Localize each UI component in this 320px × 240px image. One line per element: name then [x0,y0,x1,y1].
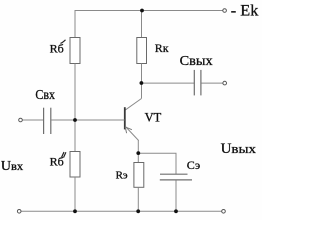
svg-text:Uвх: Uвх [1,159,24,174]
wire emitter vertical [137,141,139,163]
transistor VT emitter lead [125,126,138,140]
svg-text:Свх: Свх [35,87,55,102]
wire Ce to bottom rail [175,180,177,211]
resistor Rk [137,38,147,64]
node top rail / Rk junction [140,9,144,13]
wire base [75,119,125,121]
wire top rail [75,10,223,12]
terminal output [223,81,227,85]
wire Rk to collector [141,64,143,99]
resistor Re [134,163,144,188]
resistor Rb1 [70,38,80,64]
svg-text:Uвых: Uвых [221,141,257,157]
wire input terminal to Cin [23,119,44,121]
node bottom Ce junction [174,209,178,213]
transistor VT base bar [124,107,126,129]
wire Rb1 to base node [74,64,76,121]
svg-text:Rэ: Rэ [116,170,128,182]
svg-text:VT: VT [145,111,162,125]
svg-text:Rк: Rк [155,41,169,55]
capacitor Cout left plate [193,70,195,96]
wire Cin to base node [51,119,75,121]
capacitor Cout right plate [200,70,202,96]
wire Cout to output terminal [201,82,222,84]
node collector junction [140,81,144,85]
svg-text:Свых: Свых [180,54,213,69]
terminal -Ek [223,9,227,13]
node base junction [73,118,77,122]
capacitor Ce bottom plate [160,179,192,181]
terminal bottom right [222,210,226,214]
transistor VT collector lead [125,99,141,110]
wire Re to bottom rail [137,187,139,211]
node bottom Rb2 junction [73,209,77,213]
wire emitter node to Ce [138,153,176,174]
node emitter junction [136,151,140,155]
wire left branch vertical (top rail to Rb1) [74,10,76,38]
wire bottom rail [21,210,222,212]
transistor VT emitter arrow (PNP, pointing to base) [125,127,132,133]
terminal bottom left [17,210,21,214]
wire Rb2 to bottom rail [74,177,76,211]
resistor Rb2 [70,152,80,178]
svg-text:- Ek: - Ek [231,2,259,19]
capacitor Ce top plate [160,173,188,175]
svg-text:Сэ: Сэ [187,158,200,172]
wire collector node to Cout [142,82,195,84]
wire base node to Rb2 [74,120,76,152]
wire collector branch from top rail [141,11,143,38]
terminal input [19,118,23,122]
svg-text:Rб: Rб [50,42,64,56]
capacitor Cin left plate [43,108,45,134]
node bottom Re junction [136,209,140,213]
capacitor Cin right plate [50,108,52,134]
